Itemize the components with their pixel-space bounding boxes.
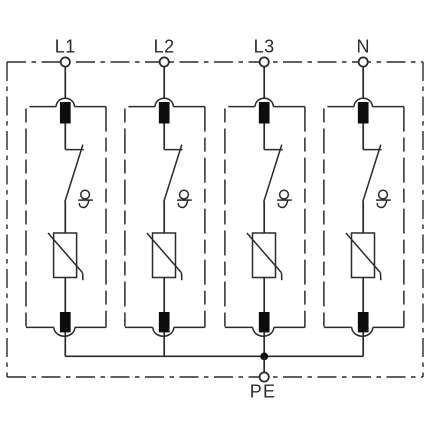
svg-text:L2: L2	[154, 37, 175, 57]
svg-text:L1: L1	[55, 37, 76, 57]
svg-text:L3: L3	[254, 37, 275, 57]
svg-text:N: N	[356, 37, 370, 57]
svg-text:PE: PE	[250, 382, 276, 402]
